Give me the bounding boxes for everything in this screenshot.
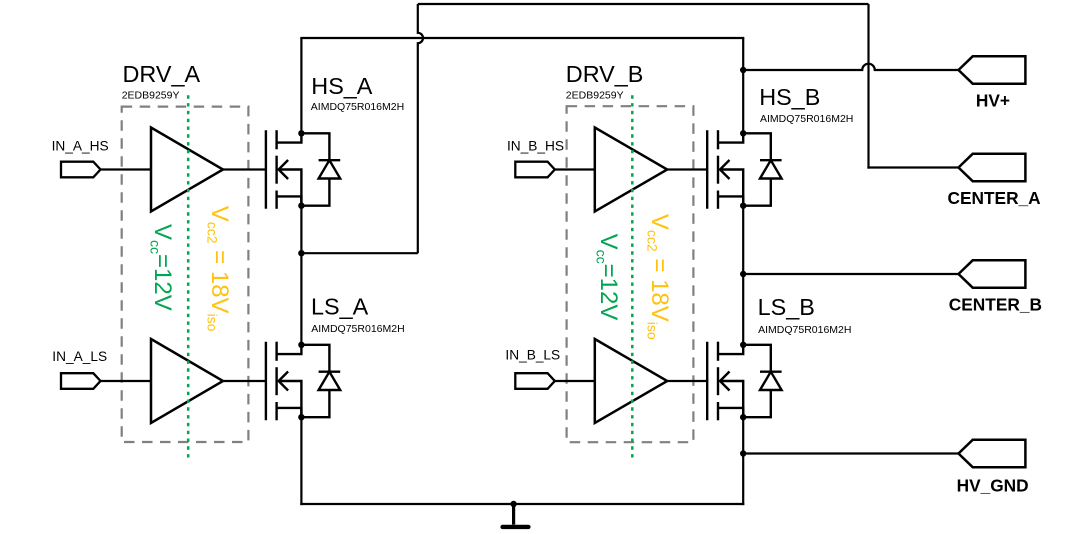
transistor LS_B MOSFET with body diode xyxy=(707,342,781,421)
wire buffer A2 output to LS_A gate xyxy=(223,380,266,382)
node ground junction on bottom rail xyxy=(510,501,516,507)
wire HV rail horizontal HS_A drain to HS_B drain xyxy=(300,37,744,39)
wire IN_B_LS to buffer B2 xyxy=(555,380,595,382)
node CENTER_B junction xyxy=(740,271,746,277)
svg-text:CENTER_B: CENTER_B xyxy=(949,295,1042,315)
wire LS_A source to bottom rail vertical xyxy=(300,417,302,505)
transistor HS_A MOSFET with body diode xyxy=(266,130,340,209)
port HV+ output terminal xyxy=(959,56,1026,83)
svg-text:HV+: HV+ xyxy=(976,91,1010,111)
port CENTER_B output terminal xyxy=(959,260,1026,287)
buffer A1 high-side gate driver triangle xyxy=(151,128,223,212)
wire HS_B drain vertical from HV rail xyxy=(742,38,744,133)
wire CENTER_A vertical riser with hop over HV rail xyxy=(418,4,423,253)
transistor HS_B MOSFET with body diode xyxy=(707,130,781,209)
svg-text:HV_GND: HV_GND xyxy=(957,476,1029,496)
wire buffer B2 output to LS_B gate xyxy=(667,380,707,382)
isolation barrier line in DRV_B (green dotted) xyxy=(631,95,634,457)
wire buffer A1 output to HS_A gate xyxy=(223,168,266,170)
svg-text:HS_B: HS_B xyxy=(759,84,820,110)
wire CENTER_A horizontal to terminal xyxy=(867,166,958,168)
wire top HV+ rail segment xyxy=(418,3,869,5)
port CENTER_A output terminal xyxy=(959,154,1026,181)
wire HS_A source to LS_A drain vertical (phase A) xyxy=(300,206,302,345)
svg-text:IN_B_LS: IN_B_LS xyxy=(505,347,560,362)
svg-text:AIMDQ75R016M2H: AIMDQ75R016M2H xyxy=(311,101,404,113)
ground symbol GND xyxy=(503,504,529,527)
wire bottom ground rail horizontal xyxy=(300,503,744,505)
wire IN_A_HS to buffer A1 xyxy=(101,168,152,170)
wire CENTER_A riser right vertical xyxy=(867,4,869,169)
svg-text:IN_A_HS: IN_A_HS xyxy=(52,138,109,153)
svg-text:LS_A: LS_A xyxy=(311,294,369,320)
port HV_GND output terminal xyxy=(959,440,1026,467)
buffer B2 low-side gate driver triangle xyxy=(595,339,667,423)
wire HV+ horizontal with hop over CENTER_A riser xyxy=(743,64,958,70)
svg-text:LS_B: LS_B xyxy=(758,294,815,320)
wire HS_A drain to HV rail vertical xyxy=(300,38,302,133)
wire LS_B source to bottom rail vertical xyxy=(742,417,744,505)
svg-text:HS_A: HS_A xyxy=(311,73,373,99)
wire CENTER_B horizontal to terminal xyxy=(743,273,958,275)
port IN_A_HS input terminal xyxy=(61,162,101,178)
svg-text:AIMDQ75R016M2H: AIMDQ75R016M2H xyxy=(311,323,404,335)
port IN_A_LS input terminal xyxy=(61,373,101,389)
gate driver U1 DRV_A dashed boundary box xyxy=(122,107,249,442)
buffer A2 low-side gate driver triangle xyxy=(151,339,223,423)
port IN_B_HS input terminal xyxy=(515,162,555,178)
svg-text:2EDB9259Y: 2EDB9259Y xyxy=(566,90,624,102)
svg-text:AIMDQ75R016M2H: AIMDQ75R016M2H xyxy=(760,113,853,125)
node HV+ junction on HS_B drain xyxy=(740,67,746,73)
wire HS_B source to LS_B drain vertical (phase B) xyxy=(742,206,744,345)
isolation barrier line in DRV_A (green dotted) xyxy=(187,95,190,457)
wire phase-A node horizontal xyxy=(301,252,417,254)
buffer B1 high-side gate driver triangle xyxy=(595,128,667,212)
svg-text:Vcc=12V: Vcc=12V xyxy=(593,234,622,321)
wire HV_GND horizontal to terminal xyxy=(743,452,958,454)
node HV_GND junction xyxy=(740,450,746,456)
svg-text:IN_B_HS: IN_B_HS xyxy=(507,138,564,153)
gate driver U2 DRV_B dashed boundary box xyxy=(567,106,694,442)
svg-text:IN_A_LS: IN_A_LS xyxy=(52,349,107,364)
svg-text:Vcc=12V: Vcc=12V xyxy=(147,224,176,311)
svg-text:AIMDQ75R016M2H: AIMDQ75R016M2H xyxy=(758,324,851,336)
svg-text:DRV_A: DRV_A xyxy=(123,61,201,87)
wire IN_A_LS to buffer A2 xyxy=(101,380,152,382)
wire buffer B1 output to HS_B gate xyxy=(667,168,707,170)
svg-text:2EDB9259Y: 2EDB9259Y xyxy=(122,90,180,102)
node phase A junction xyxy=(298,250,304,256)
svg-text:CENTER_A: CENTER_A xyxy=(948,188,1042,208)
transistor LS_A MOSFET with body diode xyxy=(266,342,340,421)
wire IN_B_HS to buffer B1 xyxy=(555,168,595,170)
svg-text:DRV_B: DRV_B xyxy=(566,61,644,87)
port IN_B_LS input terminal xyxy=(515,373,555,389)
